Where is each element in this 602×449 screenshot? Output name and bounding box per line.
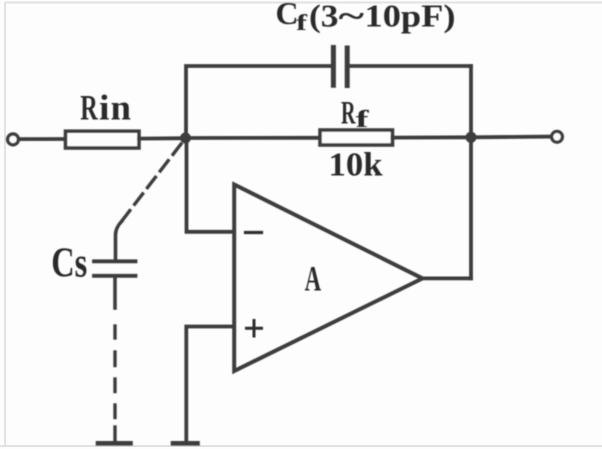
wire feedback left vertical (node A up): [186, 66, 331, 138]
wire feedback top right: [348, 64, 471, 68]
wire Cs bottom stub: [113, 276, 117, 308]
inverting input marker (minus): [246, 231, 262, 234]
ground (Cs): [98, 441, 131, 446]
capacitor Cf: [333, 48, 347, 86]
resistor Rin: [66, 131, 140, 148]
svg-text:10k: 10k: [329, 147, 383, 184]
output node junction dot: [466, 132, 477, 143]
wire op-amp output to right vertical: [422, 276, 472, 280]
wire output node to output terminal: [471, 135, 552, 139]
ground (non-inverting input): [173, 441, 198, 446]
input terminal: [8, 134, 19, 145]
wire input terminal to Rin: [19, 137, 66, 141]
non-inverting input marker (plus): [247, 321, 262, 337]
wire bend into Cs top: [116, 222, 122, 262]
dashed wire Cs to ground: [113, 326, 116, 442]
wire Rf to output node: [393, 135, 472, 139]
wire feedback right vertical: [469, 66, 473, 278]
svg-text:Cs: Cs: [51, 241, 87, 287]
svg-text:A: A: [305, 258, 322, 298]
wire non-inverting input: [186, 327, 234, 442]
svg-text:Rin: Rin: [80, 88, 131, 128]
output terminal: [552, 131, 563, 142]
wire node A down to inverting input: [187, 143, 235, 232]
resistor Rf: [320, 130, 393, 145]
wire node A to Rf: [186, 136, 321, 140]
decorative frame (unlabeled): [5, 2, 602, 4]
wire Rin to node A: [139, 136, 186, 140]
capacitor Cs: [94, 261, 136, 276]
op-amp A triangle: [234, 185, 422, 372]
node A junction dot: [180, 133, 191, 144]
dashed wire node A to Cs: [121, 144, 181, 222]
